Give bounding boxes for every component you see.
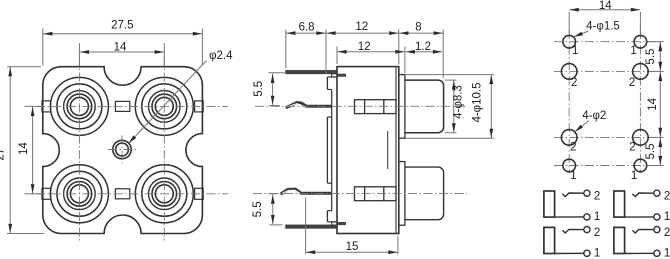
center rect between top jacks — [115, 101, 129, 111]
RCA jack bottom-right (front view concentric circles) — [135, 165, 193, 223]
svg-text:2: 2 — [629, 141, 635, 153]
housing inner right wall line — [395, 67, 397, 234]
tab above lower pin — [332, 222, 337, 225]
left shield plate lines — [327, 77, 337, 222]
leader and label 4-phi1.5 — [574, 20, 620, 37]
hole row1 left phi1.5 pin 1 — [563, 35, 576, 48]
svg-text:5.5: 5.5 — [645, 49, 657, 65]
svg-text:14: 14 — [18, 142, 30, 155]
center rect between bottom jacks — [115, 189, 129, 199]
dimension 27.5 (overall width, top) — [43, 20, 203, 66]
svg-text:2: 2 — [594, 227, 600, 239]
centerline horizontal top row — [36, 105, 228, 107]
centerline vertical left column — [78, 57, 80, 243]
svg-text:1: 1 — [570, 170, 576, 182]
hole row3 right phi2 pin 2 — [633, 130, 649, 146]
svg-text:4-φ10.5: 4-φ10.5 — [472, 82, 484, 122]
dimension 14 (top right, hole pitch) — [569, 0, 640, 34]
upper jack flange phi10.5 — [399, 75, 405, 139]
svg-text:4-φ8.3: 4-φ8.3 — [453, 85, 465, 119]
svg-text:2: 2 — [570, 141, 576, 153]
svg-text:2: 2 — [629, 77, 635, 89]
svg-text:14: 14 — [114, 41, 127, 53]
hole row2 right phi2 pin 2 — [633, 64, 649, 80]
side view: housing body — [337, 67, 399, 234]
svg-text:5.5: 5.5 — [252, 201, 264, 217]
svg-text:1: 1 — [664, 248, 670, 259]
dimension 14 (vertical pitch) — [18, 106, 42, 193]
svg-text:15: 15 — [346, 241, 359, 253]
centerline horizontal bottom row — [36, 193, 228, 195]
svg-text:5.5: 5.5 — [645, 143, 657, 159]
svg-text:2: 2 — [571, 77, 577, 89]
lower window with dividers — [355, 187, 397, 201]
centerline cross of center hole — [108, 149, 136, 151]
dimension row 6.8 / 12 / 8 (top) — [286, 21, 443, 78]
small tab right edge top row — [195, 101, 204, 112]
svg-text:2: 2 — [664, 227, 670, 239]
dimension 5.5 upper left — [253, 73, 285, 106]
upper window with dividers — [355, 100, 397, 114]
centerline vertical right column — [163, 57, 165, 243]
pin number labels — [570, 45, 637, 182]
leader and label 4-phi2 — [575, 110, 607, 132]
dimension 4-phi10.5 (flange) — [406, 75, 495, 139]
dimension 15 (bottom) — [306, 198, 398, 255]
upper flat PCB pin — [286, 71, 337, 74]
upper bent ground pin (zigzag) — [286, 103, 332, 108]
RCA jack top-left (front view concentric circles) — [50, 77, 108, 135]
lower bent ground pin (zigzag) — [281, 189, 332, 194]
dimension 27 (overall height, left) — [0, 67, 44, 234]
svg-text:φ2.4: φ2.4 — [209, 50, 233, 62]
right side dimension chain 5.5 / 14 / 5.5 — [645, 42, 663, 166]
svg-text:1: 1 — [594, 211, 600, 223]
svg-text:14: 14 — [647, 97, 659, 110]
svg-text:4-φ1.5: 4-φ1.5 — [586, 20, 620, 32]
upper jack barrel phi8.3 (rounded right) — [405, 80, 444, 133]
svg-text:4-φ2: 4-φ2 — [582, 110, 606, 122]
svg-text:6.8: 6.8 — [299, 21, 315, 33]
centerline hole row 4 — [554, 165, 664, 167]
left view: connector body outline (front face) — [43, 67, 203, 234]
jack switch schematic symbol top-right — [614, 190, 670, 223]
lower jack flange — [399, 162, 405, 226]
svg-text:1: 1 — [630, 45, 636, 57]
centerline hole column right — [639, 30, 641, 173]
svg-text:12: 12 — [358, 41, 371, 53]
svg-text:2: 2 — [594, 191, 600, 203]
svg-text:27: 27 — [0, 148, 6, 161]
dimension 5.5 lower left — [252, 194, 282, 225]
svg-text:2: 2 — [664, 191, 670, 203]
dimension 4-phi8.3 (barrel) — [445, 80, 465, 133]
svg-text:27.5: 27.5 — [111, 20, 133, 32]
svg-text:14: 14 — [599, 0, 612, 12]
svg-text:1: 1 — [594, 248, 600, 259]
centerline hole row 2 — [554, 70, 664, 72]
RCA jack top-right (front view concentric circles) — [135, 77, 193, 135]
RCA jack bottom-left (front view concentric circles) — [50, 165, 108, 223]
svg-text:8: 8 — [415, 22, 421, 34]
hole row4 right phi1.5 pin 1 — [634, 159, 647, 172]
svg-text:1: 1 — [664, 211, 670, 223]
svg-text:1: 1 — [631, 170, 637, 182]
centerline lower jack axis — [253, 192, 467, 194]
center hole phi2.4 (two concentric circles) — [113, 140, 131, 158]
leader and label phi2.4 for center hole — [129, 50, 233, 143]
svg-text:12: 12 — [355, 21, 368, 33]
hole row3 left phi2 pin 2 — [561, 130, 577, 146]
svg-text:1: 1 — [572, 45, 578, 57]
centerline upper jack axis — [255, 105, 467, 107]
jack switch schematic symbol top-left — [544, 190, 600, 223]
centerline hole column left — [568, 30, 570, 173]
small tab left edge top row — [42, 101, 51, 112]
hole row1 right phi1.5 pin 1 — [634, 35, 647, 48]
centerline hole row 3 — [554, 136, 664, 138]
housing mid seam line — [387, 131, 389, 169]
svg-text:5.5: 5.5 — [253, 81, 265, 97]
svg-text:1.2: 1.2 — [415, 41, 431, 53]
jack switch schematic symbol bottom-right — [614, 227, 670, 259]
centerline hole row 1 — [554, 41, 664, 43]
lower flat PCB pin — [286, 225, 337, 228]
hole row4 left phi1.5 pin 1 — [563, 159, 576, 172]
dimension row 12 / 1.2 (second) — [337, 41, 442, 73]
hole row2 left phi2 pin 2 — [561, 64, 577, 80]
small tab left edge bottom row — [42, 188, 51, 199]
small tab right edge bottom row — [195, 188, 204, 199]
lower jack barrel — [405, 167, 444, 220]
dimension 14 (horizontal pitch) — [79, 41, 164, 66]
jack switch schematic symbol bottom-left — [544, 227, 600, 259]
tab below upper pin — [332, 74, 337, 77]
